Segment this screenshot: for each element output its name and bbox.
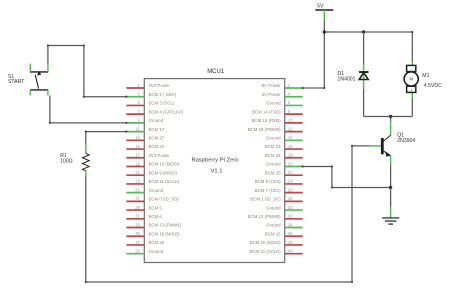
svg-text:MCU1: MCU1 bbox=[207, 69, 225, 75]
svg-text:19: 19 bbox=[135, 161, 140, 166]
svg-text:Ground: Ground bbox=[149, 188, 164, 193]
svg-text:BCM 26: BCM 26 bbox=[149, 240, 165, 245]
svg-text:BCM 15 (RXD): BCM 15 (RXD) bbox=[252, 118, 282, 123]
svg-text:2: 2 bbox=[52, 64, 54, 68]
svg-text:23: 23 bbox=[135, 179, 140, 184]
svg-text:11: 11 bbox=[136, 126, 141, 131]
MCU1 left pin 15 (BCM 22) bbox=[126, 144, 164, 149]
label Q1 2N3904 bbox=[397, 132, 415, 144]
svg-text:28: 28 bbox=[288, 196, 293, 201]
switch S1 (pushbutton START) bbox=[25, 64, 54, 96]
MCU1 left pin 35 (BCM 19 (MISO)) bbox=[126, 231, 180, 236]
MCU1 right pin 14 (Ground) bbox=[266, 135, 303, 140]
MCU1 right pin 6 (Ground) bbox=[266, 100, 303, 105]
MCU1 right pin 34 (Ground) bbox=[266, 222, 303, 227]
svg-text:Ground: Ground bbox=[149, 118, 164, 123]
wire MCU pin 20 Ground to emitter node bbox=[303, 166, 391, 187]
svg-text:BCM 14 (TXD): BCM 14 (TXD) bbox=[252, 109, 281, 114]
MCU1 right pin 8 (BCM 14 (TXD)) bbox=[252, 109, 303, 114]
svg-text:Ground: Ground bbox=[149, 249, 164, 254]
MCU1 left pin 19 (BCM 10 (MOSI)) bbox=[126, 161, 180, 166]
svg-text:10: 10 bbox=[288, 118, 293, 123]
label D1 1N4001 bbox=[338, 71, 356, 82]
svg-text:BCM 7 (CE1): BCM 7 (CE1) bbox=[255, 188, 281, 193]
svg-text:9: 9 bbox=[138, 118, 141, 123]
MCU1 left pin 23 (BCM 11 (SCLK)) bbox=[126, 179, 180, 184]
svg-text:100Ω: 100Ω bbox=[60, 159, 73, 165]
wire junction to ground symbol bbox=[390, 188, 392, 218]
svg-text:BCM 2 ( SDA): BCM 2 ( SDA) bbox=[149, 92, 177, 97]
diode D1 1N4001 bbox=[359, 65, 369, 89]
svg-text:7: 7 bbox=[138, 109, 141, 114]
svg-text:Ground: Ground bbox=[266, 101, 281, 106]
MCU1 right pin 38 (BCM 20 (MOSI)) bbox=[250, 240, 303, 245]
svg-text:24: 24 bbox=[288, 179, 293, 184]
junction bottom rail / Q1 collector bbox=[389, 115, 392, 118]
svg-text:17: 17 bbox=[135, 153, 140, 158]
svg-text:BCM 21 (SCLK): BCM 21 (SCLK) bbox=[249, 249, 281, 254]
junction 5V rail / D1 branch bbox=[362, 30, 365, 33]
svg-text:29: 29 bbox=[135, 205, 140, 210]
svg-text:M1: M1 bbox=[422, 73, 429, 79]
MCU1 left pin 5 (BCM 3 (SCL)) bbox=[126, 100, 175, 105]
svg-text:Ground: Ground bbox=[266, 223, 281, 228]
svg-text:20: 20 bbox=[288, 161, 293, 166]
svg-text:START: START bbox=[8, 79, 25, 85]
svg-text:BCM 5: BCM 5 bbox=[149, 205, 163, 210]
wire Q1 emitter to ground junction bbox=[390, 165, 392, 188]
svg-text:18: 18 bbox=[288, 153, 293, 158]
svg-text:40: 40 bbox=[288, 248, 293, 253]
svg-text:15: 15 bbox=[135, 144, 140, 149]
svg-text:BCM 11 (SCLK): BCM 11 (SCLK) bbox=[149, 179, 180, 184]
MCU1 left pin 3 (BCM 2 ( SDA)) bbox=[126, 92, 176, 97]
MCU1 right pin 30 (Ground) bbox=[266, 205, 303, 210]
MCU1 right pin 36 (BCM 16) bbox=[265, 231, 303, 236]
svg-text:30: 30 bbox=[288, 205, 293, 210]
svg-text:BCM 20 (MOSI): BCM 20 (MOSI) bbox=[250, 240, 281, 245]
svg-text:14: 14 bbox=[288, 135, 293, 140]
ground symbol bbox=[382, 218, 399, 224]
MCU1 left pin 25 (Ground) bbox=[126, 187, 163, 192]
svg-text:32: 32 bbox=[288, 214, 293, 219]
svg-text:5V Power: 5V Power bbox=[262, 92, 281, 97]
MCU1 left pin 7 (BCM 4 (GPCLK0)) bbox=[126, 109, 183, 114]
MCU1 right pin 28 (BCM 1 (ID_SC)) bbox=[250, 196, 302, 201]
svg-text:31: 31 bbox=[135, 214, 140, 219]
svg-text:39: 39 bbox=[135, 248, 140, 253]
label M1 4.5VDC bbox=[422, 73, 442, 89]
svg-text:1: 1 bbox=[138, 83, 141, 88]
wire R1 bottom to Q1 base bbox=[86, 146, 370, 282]
MCU1 right pin 32 (BCM 12 (PWM0)) bbox=[248, 214, 303, 219]
svg-text:25: 25 bbox=[135, 187, 140, 192]
MCU1 left pin 1 (3V3 Power) bbox=[126, 83, 170, 88]
wire D1 bottom to bottom rail bbox=[363, 89, 365, 117]
svg-text:22: 22 bbox=[288, 170, 293, 175]
svg-text:BCM 12 (PWM0): BCM 12 (PWM0) bbox=[248, 214, 281, 219]
power 5V symbol bbox=[315, 4, 333, 20]
svg-text:Ground: Ground bbox=[266, 136, 281, 141]
MCU1 right pin 40 (BCM 21 (SCLK)) bbox=[249, 248, 302, 253]
svg-text:5: 5 bbox=[138, 100, 141, 105]
svg-text:BCM 3 (SCL): BCM 3 (SCL) bbox=[149, 101, 175, 106]
wire bend points bbox=[47, 31, 414, 283]
svg-text:BCM 0 (ID_SD): BCM 0 (ID_SD) bbox=[149, 197, 180, 202]
svg-text:33: 33 bbox=[135, 222, 140, 227]
svg-text:BCM 22: BCM 22 bbox=[149, 144, 165, 149]
MCU1 right pin 20 (Ground) bbox=[266, 161, 303, 166]
svg-text:16: 16 bbox=[288, 144, 293, 149]
MCU1 left pin 17 (3V3 Power) bbox=[126, 153, 170, 158]
wire D1 branch down bbox=[363, 32, 365, 65]
transistor Q1 2N3904 NPN bbox=[369, 121, 390, 165]
svg-text:3V3 Power: 3V3 Power bbox=[149, 153, 171, 158]
junction emitter / pin20 ground / ground symbol bbox=[389, 186, 392, 189]
svg-text:12: 12 bbox=[288, 126, 293, 131]
MCU1 left pin 21 (BCM 9 (MISO)) bbox=[126, 170, 177, 175]
label S1 START bbox=[8, 74, 25, 85]
svg-text:BCM 24: BCM 24 bbox=[265, 153, 281, 158]
svg-text:36: 36 bbox=[288, 231, 293, 236]
svg-text:37: 37 bbox=[135, 240, 140, 245]
svg-text:BCM 25: BCM 25 bbox=[265, 170, 281, 175]
svg-text:4: 4 bbox=[288, 92, 291, 97]
svg-text:Ground: Ground bbox=[266, 205, 281, 210]
MCU1 left pin 13 (BCM 27) bbox=[126, 135, 164, 140]
label R1 100ohm bbox=[60, 153, 73, 165]
svg-text:M: M bbox=[409, 77, 413, 82]
wire bottom rail D1 to M1 bbox=[364, 116, 413, 118]
motor M1 4.5VDC bbox=[404, 62, 418, 99]
svg-text:4.5VDC: 4.5VDC bbox=[424, 83, 442, 89]
MCU1 left pin 39 (Ground) bbox=[126, 248, 163, 253]
svg-text:Raspberry Pi Zero: Raspberry Pi Zero bbox=[191, 158, 238, 164]
svg-text:BCM 6: BCM 6 bbox=[149, 214, 163, 219]
svg-text:8: 8 bbox=[288, 109, 291, 114]
svg-text:BCM 27: BCM 27 bbox=[149, 136, 165, 141]
wire junction down to MCU pin 2 5V Power bbox=[303, 32, 325, 88]
MCU1 left pin 11 (BCM 17) bbox=[126, 126, 164, 131]
svg-text:1N4001: 1N4001 bbox=[338, 76, 356, 82]
MCU1 right pin 18 (BCM 24) bbox=[265, 153, 303, 158]
svg-text:BCM 19 (MISO): BCM 19 (MISO) bbox=[149, 231, 180, 236]
svg-text:26: 26 bbox=[288, 187, 293, 192]
svg-text:BCM 9 (MISO): BCM 9 (MISO) bbox=[149, 170, 178, 175]
svg-text:3: 3 bbox=[138, 92, 141, 97]
MCU1 left pin 29 (BCM 5) bbox=[126, 205, 162, 210]
svg-text:5V Power: 5V Power bbox=[262, 83, 281, 88]
resistor R1 bbox=[82, 143, 89, 176]
MCU1 left pin 27 (BCM 0 (ID_SD)) bbox=[126, 196, 179, 201]
junction at 5V vertical bbox=[323, 30, 326, 33]
svg-text:BCM 17: BCM 17 bbox=[149, 127, 165, 132]
svg-text:35: 35 bbox=[135, 231, 140, 236]
wire M1 bottom to bottom rail bbox=[411, 99, 413, 117]
MCU1 right pin 4 (5V Power) bbox=[262, 92, 303, 97]
wire S1 bottom pin to MCU pin 9 Ground bbox=[50, 95, 126, 122]
MCU1 left pin 31 (BCM 6) bbox=[126, 214, 162, 219]
svg-text:BCM 23: BCM 23 bbox=[265, 144, 281, 149]
svg-text:V1.1: V1.1 bbox=[211, 169, 223, 175]
svg-text:6: 6 bbox=[288, 100, 291, 105]
MCU1 right pin 22 (BCM 25) bbox=[265, 170, 303, 175]
svg-text:38: 38 bbox=[288, 240, 293, 245]
MCU1 right pin 26 (BCM 7 (CE1)) bbox=[255, 187, 303, 192]
svg-text:21: 21 bbox=[135, 170, 140, 175]
svg-text:34: 34 bbox=[288, 222, 293, 227]
MCU1 right pin 2 (5V Power) bbox=[262, 83, 303, 88]
svg-text:27: 27 bbox=[135, 196, 140, 201]
svg-text:13: 13 bbox=[135, 135, 140, 140]
svg-text:BCM 18 (PWM0): BCM 18 (PWM0) bbox=[248, 127, 281, 132]
svg-text:BCM 4 (GPCLK0): BCM 4 (GPCLK0) bbox=[149, 109, 184, 114]
svg-text:5V: 5V bbox=[317, 4, 324, 10]
MCU1 right pin 24 (BCM 8 (CE0)) bbox=[255, 179, 303, 184]
wire MCU pin 11 BCM17 to R1 top bbox=[86, 132, 127, 143]
svg-text:3V3 Power: 3V3 Power bbox=[149, 83, 171, 88]
MCU1 left pin 33 (BCM 13 (PWM1)) bbox=[126, 222, 182, 227]
wire 5V to junction bbox=[323, 20, 325, 32]
svg-text:1: 1 bbox=[25, 64, 27, 68]
wire 5V rail to D1 and M1 top bbox=[324, 32, 412, 62]
svg-text:Ground: Ground bbox=[266, 162, 281, 167]
MCU1 right pin 12 (BCM 18 (PWM0)) bbox=[248, 126, 303, 131]
svg-text:BCM 13 (PWM1): BCM 13 (PWM1) bbox=[149, 223, 182, 228]
svg-text:2: 2 bbox=[288, 83, 291, 88]
svg-text:BCM 16: BCM 16 bbox=[265, 231, 281, 236]
svg-text:BCM 1 (ID_SC): BCM 1 (ID_SC) bbox=[250, 197, 281, 202]
MCU1 right pin 10 (BCM 15 (RXD)) bbox=[252, 118, 303, 123]
svg-text:BCM 8 (CE0): BCM 8 (CE0) bbox=[255, 179, 281, 184]
svg-text:BCM 10 (MOSI): BCM 10 (MOSI) bbox=[149, 162, 180, 167]
wire junction to Q1 collector bbox=[390, 117, 392, 122]
MCU1 right pin 16 (BCM 23) bbox=[265, 144, 303, 149]
MCU1 left pin 9 (Ground) bbox=[126, 118, 163, 123]
IC MCU1 Raspberry Pi Zero bbox=[144, 69, 284, 263]
wire S1 top pin to MCU pin 3 BCM2 SDA bbox=[48, 46, 126, 97]
MCU1 left pin 37 (BCM 26) bbox=[126, 240, 164, 245]
svg-text:2N3904: 2N3904 bbox=[397, 138, 415, 144]
